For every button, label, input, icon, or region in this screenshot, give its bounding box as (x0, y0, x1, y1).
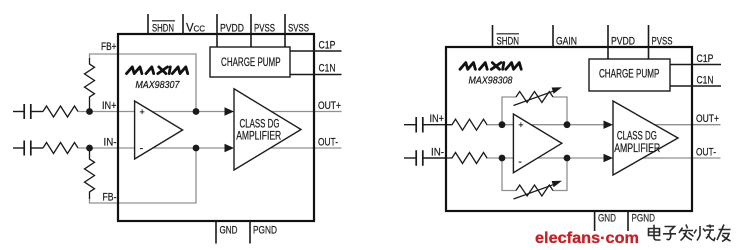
pin label IN+ (left side) (102, 100, 117, 112)
part number MAX98307 (135, 80, 179, 91)
part number MAX98308 (469, 76, 513, 87)
variable feedback resistor top (right) (514, 87, 563, 105)
wire IN- internal row (118, 147, 227, 149)
RIGHT DIAGRAM MAX98308 (404, 25, 721, 231)
input coupling capacitor, IN+ path (right) (416, 117, 446, 133)
svg-text:MAX98307: MAX98307 (135, 80, 179, 91)
junction dot IN- internal (193, 145, 200, 152)
watermark chinese character zi (663, 227, 676, 240)
svg-text:PVDD: PVDD (220, 23, 244, 35)
svg-text:OUT+: OUT+ (318, 100, 341, 112)
svg-text:FB+: FB+ (101, 41, 117, 53)
pin GND stub (left bottom) (215, 221, 217, 244)
pin PGND stub (right bottom) (627, 211, 629, 231)
watermark chinese character dian (649, 225, 661, 240)
wire internal FB+ route (118, 54, 196, 112)
wire OUT- row (260, 147, 342, 149)
pin GND stub (right bottom) (594, 211, 596, 231)
arrow into class DG amplifier IN+ (right) (604, 121, 614, 129)
pin label PVSS (left top) (254, 23, 275, 35)
pin label FB- (left side) (103, 192, 117, 204)
svg-text:elecfans·com: elecfans·com (535, 230, 639, 247)
junction dot IN+ internal (193, 108, 200, 115)
wire OUT- row (right) (630, 157, 721, 159)
pin label OUT+ (right) (696, 113, 719, 125)
watermark chinese character fa (679, 225, 694, 241)
junction dot IN+ left (right diagram) (499, 121, 506, 128)
pin label OUT+ (left) (318, 100, 341, 112)
svg-text:OUT-: OUT- (696, 147, 716, 159)
pin SVSS stub (left diagram) (284, 14, 286, 47)
svg-text:+: + (140, 107, 145, 117)
pin VCC stub (left diagram) (182, 14, 184, 34)
pin label GAIN (right) (556, 36, 577, 48)
pin label PVDD (left top) (220, 23, 244, 35)
svg-text:AMPLIFIER: AMPLIFIER (236, 131, 281, 143)
wire FB+ elbow to pin (90, 54, 119, 58)
svg-text:-: - (140, 143, 144, 155)
svg-text:PGND: PGND (632, 213, 656, 225)
svg-text:C1N: C1N (319, 63, 336, 75)
pin label FB+ (left side) (101, 41, 117, 53)
pin GAIN stub (right diagram) (552, 25, 554, 47)
input coupling capacitor, IN- path (24, 141, 43, 156)
junction dot IN+ right (right diagram) (564, 121, 571, 128)
pin PVDD stub (left diagram) (216, 14, 218, 47)
svg-text:OUT-: OUT- (318, 137, 338, 149)
op-amp input buffer (left diagram) (135, 101, 183, 159)
pin C1N wire and stub (left) (290, 74, 342, 76)
variable feedback resistor bottom (right) (514, 181, 563, 199)
junction dot IN- right (right diagram) (564, 155, 571, 162)
wire top feedback loop (right) (502, 97, 567, 125)
svg-text:C1P: C1P (319, 40, 336, 52)
wire resistor to IN- pin (78, 147, 118, 149)
pin PGND stub (left bottom) (249, 221, 251, 244)
junction dot IN- left (right diagram) (499, 155, 506, 162)
Maxim logo (left diagram) (127, 67, 188, 74)
charge pump block (right diagram) (589, 59, 670, 91)
svg-text:CC: CC (194, 25, 206, 34)
wire IN- input lead (left diagram) (13, 147, 24, 149)
pin SHDN stub (right diagram) (492, 25, 494, 47)
input coupling capacitor, IN+ path (24, 104, 43, 119)
wire IN+ internal row (118, 111, 227, 113)
pin label PVSS (right top) (652, 36, 673, 48)
pin label SHDN with overline (right) (497, 34, 520, 48)
svg-text:PVSS: PVSS (254, 23, 275, 35)
input coupling capacitor, IN- path (right) (416, 150, 446, 166)
svg-text:GAIN: GAIN (556, 36, 577, 48)
svg-text:PVDD: PVDD (611, 36, 635, 48)
Maxim logo (right diagram) (460, 63, 521, 70)
pin C1P wire and stub (left) (290, 50, 342, 52)
arrow into class DG amplifier IN- (right) (604, 154, 614, 162)
pin label PGND (right bottom) (632, 213, 656, 225)
op-amp input buffer (right diagram) (513, 114, 561, 173)
svg-text:AMPLIFIER: AMPLIFIER (614, 143, 660, 155)
junction dot IN+ external (86, 108, 93, 115)
pin SHDN stub (left diagram) (147, 14, 149, 34)
svg-text:GND: GND (598, 213, 616, 225)
pin label IN+ (right side) (430, 113, 445, 125)
pin label VCC (186, 23, 205, 35)
IC boundary MAX98308 (446, 47, 692, 211)
svg-text:CLASS DG: CLASS DG (617, 131, 657, 143)
wire IN- input lead (right diagram) (404, 157, 416, 159)
pin label SVSS (left top) (288, 23, 309, 35)
pin label C1N (right) (697, 75, 714, 87)
junction dot IN- external (86, 145, 93, 152)
wire IN+ input lead (right diagram) (404, 124, 416, 126)
wire bottom feedback loop (right) (502, 158, 567, 191)
wire resistor to IN+ pin (78, 111, 118, 113)
svg-text:GND: GND (220, 225, 238, 237)
svg-text:C1P: C1P (697, 53, 714, 65)
svg-text:IN+: IN+ (102, 100, 117, 112)
svg-text:CLASS DG: CLASS DG (240, 118, 280, 130)
pin label PVDD (right top) (611, 36, 635, 48)
class DG amplifier triangle (right diagram) (613, 101, 678, 175)
watermark chinese character you (717, 225, 731, 242)
pin C1P wire and stub (right) (670, 64, 721, 66)
external feedback resistor FB+ (85, 58, 95, 112)
svg-text:OUT+: OUT+ (696, 113, 719, 125)
pin PVDD stub (right diagram) (607, 25, 609, 59)
pin label GND (right bottom) (598, 213, 616, 225)
wire OUT+ row (260, 111, 342, 113)
svg-text:PGND: PGND (253, 225, 277, 237)
IC boundary MAX98307 (118, 34, 314, 221)
external feedback resistor FB- (85, 148, 95, 199)
pin label C1P (right) (697, 53, 714, 65)
class DG amplifier triangle (left diagram) (234, 89, 301, 170)
svg-text:IN-: IN- (104, 137, 117, 149)
pin PVSS stub (right diagram) (648, 25, 650, 59)
svg-text:IN-: IN- (431, 147, 444, 159)
wire IN+ input lead (left diagram) (13, 111, 24, 113)
svg-text:+: + (518, 120, 523, 130)
pin label IN- (right side) (431, 147, 444, 159)
charge pump block (left diagram) (210, 47, 290, 77)
svg-text:C1N: C1N (697, 75, 714, 87)
wire FB- elbow to pin (90, 199, 119, 203)
wire IN- internal row (right) (486, 157, 606, 159)
series input resistor IN+ (right, internal) (446, 119, 487, 130)
pin label C1P (left) (319, 40, 336, 52)
pin label OUT- (left) (318, 137, 338, 149)
arrow into class DG amplifier, IN- (225, 144, 235, 152)
svg-text:-: - (518, 156, 522, 168)
svg-text:SVSS: SVSS (288, 23, 309, 35)
wire internal FB- route (118, 148, 196, 203)
svg-text:SHDN: SHDN (497, 36, 520, 48)
wire IN+ internal row (right) (486, 124, 606, 126)
WATERMARK (535, 225, 731, 248)
svg-text:CHARGE PUMP: CHARGE PUMP (221, 57, 281, 69)
svg-text:PVSS: PVSS (652, 36, 673, 48)
svg-text:MAX98308: MAX98308 (469, 76, 513, 87)
series input resistor, IN+ path (43, 106, 78, 117)
svg-text:SHDN: SHDN (152, 23, 174, 35)
arrow into class DG amplifier, IN+ (225, 107, 235, 115)
pin label GND (left bottom) (220, 225, 238, 237)
watermark text elecfans.com (535, 230, 639, 247)
pin label PGND (left bottom) (253, 225, 277, 237)
pin PVSS stub (left diagram) (250, 14, 252, 47)
LEFT DIAGRAM MAX98307 (13, 14, 342, 244)
wire OUT+ row (right) (630, 124, 721, 126)
pin label IN- (left side) (104, 137, 117, 149)
svg-text:FB-: FB- (103, 192, 117, 204)
pin label OUT- (right) (696, 147, 716, 159)
watermark chinese character shao (694, 225, 715, 241)
pin label C1N (left) (319, 63, 336, 75)
pin C1N wire and stub (right) (670, 85, 721, 87)
series input resistor IN- (right, internal) (446, 153, 487, 164)
svg-text:CHARGE PUMP: CHARGE PUMP (599, 69, 660, 81)
series input resistor, IN- path (43, 143, 78, 154)
svg-text:IN+: IN+ (430, 113, 445, 125)
pin label SHDN with overline (left) (152, 21, 175, 35)
